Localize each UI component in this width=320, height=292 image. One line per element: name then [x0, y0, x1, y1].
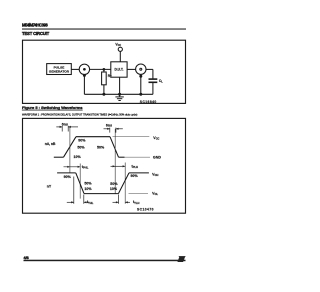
vertical at output fall 50%	[79, 164, 81, 199]
ground symbol bars	[115, 97, 123, 101]
long vertical at input rise (6ns right delimiter extended)	[69, 127, 71, 173]
GND reference line	[125, 156, 151, 158]
svg-text:Figure 5 : Switching Waveforms: Figure 5 : Switching Waveforms	[22, 105, 83, 110]
output rising edge	[118, 173, 129, 194]
svg-text:6ns: 6ns	[62, 123, 68, 127]
svg-text:WAVEFORM 1 : PROPAGATION DELAY: WAVEFORM 1 : PROPAGATION DELAYS, OUTPUT …	[22, 112, 138, 116]
svg-text:10%: 10%	[74, 155, 82, 159]
capacitor CL plates	[149, 79, 158, 82]
svg-text:4/6: 4/6	[24, 256, 29, 260]
svg-text:nA, nB: nA, nB	[45, 142, 56, 146]
resistor RT body	[102, 72, 107, 85]
scope probe circle	[136, 64, 146, 74]
long vertical at output rise 50%	[124, 163, 126, 204]
ground rail	[84, 93, 152, 95]
wire scope to capacitor branch	[146, 68, 153, 70]
svg-text:50%: 50%	[77, 145, 85, 149]
svg-text:GND: GND	[153, 155, 161, 159]
svg-text:10%: 10%	[110, 187, 118, 191]
output high line right	[129, 172, 149, 174]
output high line left	[57, 172, 76, 174]
input rising edge	[64, 137, 77, 158]
propagation delay markers	[70, 127, 125, 204]
resistor RT bottom wire	[103, 85, 105, 95]
pulse generator box	[47, 64, 72, 75]
wire VCC terminal to DUT	[119, 51, 121, 61]
svg-text:50%: 50%	[84, 181, 92, 185]
svg-text:10%: 10%	[84, 187, 92, 191]
tTLH measure	[113, 195, 131, 204]
svg-text:TEST CIRCUIT: TEST CIRCUIT	[22, 31, 50, 36]
junction dots	[83, 68, 142, 96]
wire scope down to rail	[140, 74, 142, 94]
svg-text:VCC: VCC	[115, 43, 121, 48]
tTHL measure	[67, 177, 89, 204]
wire generator down to rail	[83, 75, 85, 95]
input low line left	[54, 156, 64, 158]
svg-text:90%: 90%	[131, 174, 139, 178]
svg-text:6ns: 6ns	[106, 124, 112, 128]
input low line right	[119, 156, 125, 158]
header rule	[22, 29, 186, 30]
wire DUT bottom to rail	[119, 77, 121, 94]
ground symbol stem	[119, 94, 121, 97]
rise time measure 6ns	[56, 126, 78, 132]
tPLH arrow line	[111, 165, 126, 167]
generator symbol circle	[79, 64, 89, 74]
VCC reference line	[113, 136, 150, 138]
svg-text:50%: 50%	[110, 182, 118, 186]
output falling edge	[76, 173, 84, 194]
svg-text:D.U.T.: D.U.T.	[114, 68, 123, 72]
capacitor bottom wire	[152, 82, 154, 94]
footer rule	[24, 260, 186, 262]
svg-text:M54/M74HC393: M54/M74HC393	[22, 22, 48, 27]
long vertical at input fall (6ns right delimiter extended)	[114, 129, 116, 194]
figure box 1 (test circuit)	[23, 40, 186, 103]
DUT box	[111, 62, 127, 77]
VCC terminal circle	[118, 47, 122, 51]
svg-text:90%: 90%	[78, 139, 86, 143]
ST logo	[177, 257, 185, 262]
capacitor top wire	[152, 69, 154, 79]
tPHL arrow line	[64, 166, 81, 168]
figure box 2 (waveforms)	[23, 118, 186, 213]
svg-text:SC10470: SC10470	[137, 208, 154, 212]
svg-text:GENERATOR: GENERATOR	[49, 69, 70, 73]
wire generator to DUT	[90, 68, 111, 70]
svg-text:90%: 90%	[64, 175, 72, 179]
svg-text:nY: nY	[47, 184, 52, 188]
input high plateau	[76, 136, 110, 138]
svg-text:50%: 50%	[97, 145, 105, 149]
fall time measure 6ns	[104, 128, 123, 133]
wire pulse gen to generator symbol	[71, 68, 79, 70]
output low plateau	[84, 193, 118, 195]
input falling edge	[110, 137, 119, 158]
resistor RT branch wire top	[103, 69, 105, 72]
VOL reference line	[129, 193, 149, 195]
wire DUT to scope symbol	[127, 68, 136, 70]
svg-text:SC16840: SC16840	[140, 100, 157, 104]
